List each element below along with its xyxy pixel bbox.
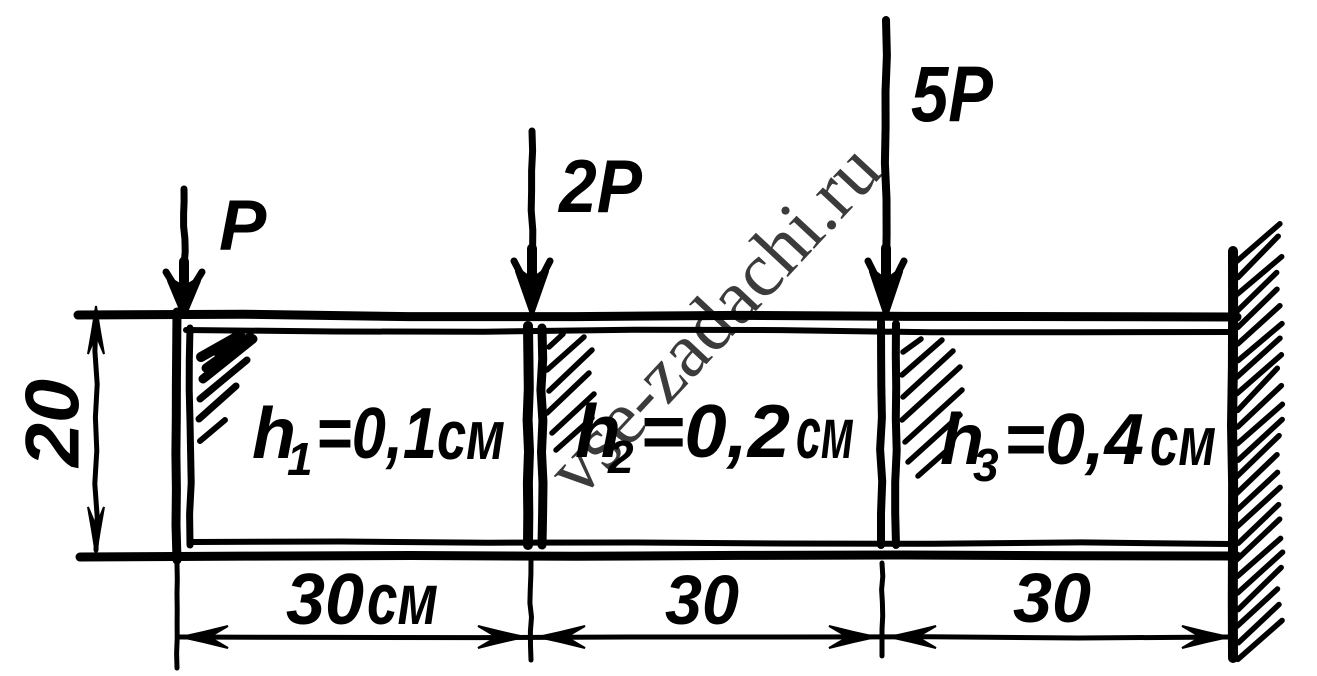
- force arrow P head: [170, 280, 198, 314]
- svg-text:см: см: [437, 396, 505, 474]
- bar left end (inner vertical): [189, 328, 191, 545]
- hatching segment 3: [902, 339, 962, 476]
- svg-text:5P: 5P: [911, 49, 993, 138]
- bar left end (outer vertical): [176, 312, 177, 560]
- svg-text:см: см: [796, 394, 854, 474]
- force arrow 5P shaft: [885, 20, 887, 270]
- dim arrow left of segment 3 (points left): [889, 626, 936, 648]
- dim arrow right end (points right): [1182, 626, 1229, 648]
- wall hatching: [1237, 224, 1283, 660]
- svg-text:20: 20: [11, 379, 96, 469]
- height dim arrow down: [88, 507, 104, 555]
- svg-text:см: см: [367, 560, 438, 640]
- bottom dimension line: [180, 637, 1228, 638]
- divider between segment 2 and 3 (right line): [895, 324, 897, 545]
- dim arrow left end (points left): [181, 626, 228, 648]
- svg-text:30: 30: [665, 561, 739, 639]
- svg-text:=0,2: =0,2: [640, 389, 790, 473]
- dimension extension line at divider 2: [882, 563, 883, 656]
- force arrow 2P shaft: [531, 131, 533, 270]
- dimension extension line left: [174, 564, 180, 668]
- force arrow 2P head: [518, 271, 546, 311]
- hatching segment 2: [547, 334, 594, 450]
- svg-text:1: 1: [287, 433, 313, 485]
- bar bottom edge (inner line): [193, 542, 1229, 545]
- divider between segment 1 and 2 (left line): [528, 326, 529, 545]
- dim arrow left of segment 2 (points left): [538, 626, 585, 648]
- divider between segment 2 and 3 (left line): [880, 322, 882, 545]
- force arrow 5P head: [872, 271, 900, 313]
- bar top edge (inner line): [186, 330, 1229, 333]
- height dimension line 20: [95, 318, 97, 550]
- divider between segment 1 and 2 (right line): [541, 328, 543, 545]
- fixed wall line: [1232, 251, 1233, 658]
- svg-text:=0,4: =0,4: [1004, 400, 1144, 480]
- svg-text:P: P: [219, 187, 267, 266]
- bar bottom edge (outer line) with left extension: [80, 555, 1237, 557]
- dim arrow right of segment 2 (points right): [829, 626, 876, 648]
- svg-text:2P: 2P: [557, 144, 643, 228]
- height dim arrow up: [88, 306, 104, 354]
- hatching segment 1: [199, 335, 253, 441]
- dim arrow right of segment 1 (points right): [478, 626, 525, 648]
- svg-text:30: 30: [1013, 559, 1091, 637]
- svg-text:30: 30: [286, 560, 364, 640]
- svg-text:см: см: [1150, 402, 1216, 480]
- bar top edge (outer line): [78, 314, 1237, 317]
- svg-text:2: 2: [607, 431, 634, 483]
- dimension extension line at divider 1: [530, 560, 532, 660]
- svg-text:=0,1: =0,1: [316, 394, 437, 474]
- svg-text:3: 3: [973, 439, 999, 491]
- force arrow P shaft: [184, 189, 186, 276]
